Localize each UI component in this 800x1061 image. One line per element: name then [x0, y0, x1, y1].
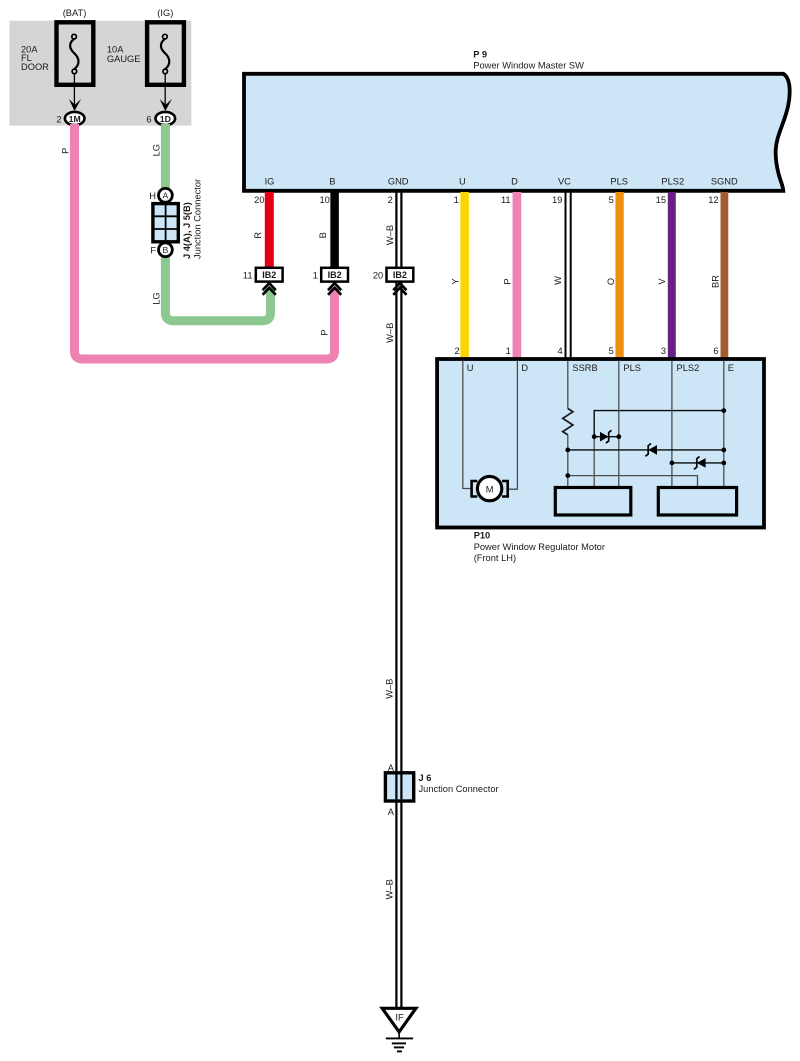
wire LG (green) 1D to junction — [161, 124, 170, 189]
connector IB2 pin 1 — [313, 268, 348, 282]
junction connector circle B — [150, 243, 172, 257]
svg-text:H: H — [149, 191, 156, 201]
svg-text:J 6: J 6 — [419, 773, 432, 783]
chevron below IB2 pin 11 — [263, 283, 276, 295]
junction connector J6 — [385, 773, 413, 801]
internal wire PLS2 — [671, 361, 673, 488]
internal wire D — [509, 361, 518, 489]
svg-text:W–B: W–B — [385, 225, 395, 245]
svg-text:10: 10 — [319, 195, 329, 205]
internal wire E — [723, 361, 725, 488]
wire Y (yellow) U to P10 — [460, 192, 469, 358]
svg-text:IB2: IB2 — [393, 270, 407, 280]
wire V (violet) PLS2 to P10 — [668, 192, 676, 358]
svg-text:1: 1 — [454, 195, 459, 205]
svg-text:GND: GND — [388, 177, 409, 187]
svg-text:A: A — [388, 763, 395, 773]
svg-text:V: V — [657, 278, 667, 285]
svg-text:(BAT): (BAT) — [63, 8, 87, 18]
fuse 10A GAUGE (IG) — [147, 22, 184, 85]
svg-text:15: 15 — [656, 195, 666, 205]
svg-text:3: 3 — [661, 346, 666, 356]
internal wire diode row 2 — [568, 449, 724, 451]
diode D1 (zener) — [600, 430, 612, 443]
limit switch box 1 — [555, 488, 631, 516]
internal wire U — [463, 361, 472, 489]
svg-text:W–B: W–B — [385, 879, 395, 899]
diode D3 (zener) — [694, 457, 706, 470]
svg-text:SSRB: SSRB — [572, 363, 597, 373]
svg-text:DOOR: DOOR — [21, 62, 49, 72]
internal wire mid vertical (upper, black) — [594, 411, 724, 437]
svg-text:A: A — [388, 807, 395, 817]
svg-text:5: 5 — [609, 195, 614, 205]
svg-text:P 9: P 9 — [473, 49, 487, 59]
svg-text:R: R — [253, 232, 263, 239]
svg-text:O: O — [606, 278, 616, 285]
connector 1D pin 6 — [146, 112, 175, 125]
diode D2 (zener) — [645, 444, 657, 457]
ground IF — [382, 1008, 416, 1051]
svg-text:19: 19 — [552, 195, 562, 205]
motor box P10 — [437, 359, 764, 528]
limit switch box 2 — [658, 488, 736, 516]
svg-text:LG: LG — [152, 292, 162, 304]
svg-text:11: 11 — [243, 270, 253, 280]
ECU box P9 Power Window Master SW — [244, 74, 790, 191]
svg-text:A: A — [163, 191, 169, 201]
wire fuse1 to 1M with arrowhead — [69, 74, 81, 111]
internal wire SSRB lower — [567, 435, 569, 487]
svg-text:2: 2 — [56, 114, 61, 124]
connector 1M pin 2 — [56, 112, 84, 125]
GROUP: P9 — [244, 49, 790, 191]
svg-text:PLS: PLS — [610, 177, 628, 187]
internal wire SSRB — [567, 361, 569, 409]
svg-text:Power Window Regulator Motor: Power Window Regulator Motor — [474, 542, 605, 552]
svg-text:20: 20 — [254, 195, 264, 205]
connector IB2 pin 20 — [373, 268, 413, 282]
svg-text:PLS2: PLS2 — [661, 177, 684, 187]
svg-text:11: 11 — [501, 195, 511, 205]
svg-text:1: 1 — [313, 270, 318, 280]
svg-text:D: D — [521, 363, 528, 373]
svg-text:BR: BR — [711, 275, 721, 288]
svg-text:Junction Connector: Junction Connector — [419, 784, 499, 794]
GROUP: power wires — [60, 124, 334, 359]
GROUP: fuse block — [9, 8, 191, 125]
junction connector J4(A) J5(B) circle A — [149, 188, 172, 202]
svg-text:2: 2 — [388, 195, 393, 205]
svg-text:W–B: W–B — [385, 323, 395, 343]
svg-text:Power Window Master SW: Power Window Master SW — [473, 61, 584, 71]
svg-text:12: 12 — [708, 195, 718, 205]
svg-text:4: 4 — [558, 346, 563, 356]
GROUP: lower WB run — [382, 679, 498, 1052]
svg-text:W–B: W–B — [385, 679, 395, 699]
svg-text:PLS2: PLS2 — [677, 363, 700, 373]
wire P (pink) 1M to IB2 — [75, 124, 335, 359]
resistor (pulse sensor) — [563, 409, 573, 435]
svg-text:B: B — [163, 245, 169, 255]
svg-text:10A: 10A — [107, 45, 124, 55]
svg-text:W: W — [553, 276, 563, 285]
svg-text:5: 5 — [609, 346, 614, 356]
chevron below IB2 pin 20 — [393, 283, 406, 295]
svg-text:SGND: SGND — [711, 177, 738, 187]
svg-text:IB2: IB2 — [262, 270, 276, 280]
wire BR (brown) SGND to P10 — [721, 192, 729, 358]
svg-text:B: B — [318, 232, 328, 238]
GROUP: P10 — [437, 346, 764, 563]
motor M — [472, 476, 508, 500]
svg-text:GAUGE: GAUGE — [107, 54, 141, 64]
svg-text:IG: IG — [265, 177, 275, 187]
svg-text:6: 6 — [713, 346, 718, 356]
svg-text:P10: P10 — [474, 531, 491, 541]
chevron below IB2 pin 1 — [328, 283, 341, 295]
svg-text:Y: Y — [451, 278, 461, 284]
svg-text:(IG): (IG) — [157, 8, 173, 18]
svg-text:IF: IF — [395, 1012, 404, 1022]
wire R (red) IG to IB2 — [265, 192, 274, 269]
GROUP: IB2 connectors — [243, 268, 413, 295]
svg-text:PLS: PLS — [623, 363, 641, 373]
wire LG (green) junction to IB2 — [165, 256, 270, 321]
svg-text:Junction Connector: Junction Connector — [192, 179, 202, 259]
fuse 20A FL DOOR (BAT) — [57, 22, 94, 85]
svg-text:IB2: IB2 — [328, 270, 342, 280]
svg-text:(Front LH): (Front LH) — [474, 553, 516, 563]
svg-text:E: E — [728, 363, 734, 373]
svg-text:F: F — [150, 246, 156, 256]
wire fuse2 to 1D with arrowhead — [160, 74, 172, 111]
svg-text:VC: VC — [558, 177, 571, 187]
svg-text:U: U — [459, 177, 466, 187]
svg-text:J 4(A), J 5(B): J 4(A), J 5(B) — [182, 202, 192, 259]
wire P (pink) D to P10 — [513, 192, 522, 358]
svg-text:P: P — [502, 278, 512, 284]
svg-text:1M: 1M — [69, 114, 81, 124]
internal wire SSRB to box2 — [568, 476, 698, 488]
svg-text:M: M — [486, 484, 494, 494]
wire W-B (double line) GND to ground — [396, 192, 401, 1009]
svg-text:1D: 1D — [160, 114, 171, 124]
fuse block (gray) — [9, 21, 191, 126]
svg-text:B: B — [329, 177, 335, 187]
svg-text:2: 2 — [455, 346, 460, 356]
svg-text:P: P — [320, 329, 330, 335]
svg-text:LG: LG — [152, 144, 162, 156]
svg-text:U: U — [467, 363, 474, 373]
internal wire diode row 3 — [672, 462, 724, 464]
junction connector J4/J5 grid — [153, 204, 178, 242]
junction dots — [565, 408, 726, 478]
connector IB2 pin 11 — [243, 268, 283, 282]
internal wire PLS — [618, 361, 620, 488]
wire B (black) B to IB2 — [330, 192, 339, 269]
internal wire diode row 1 — [594, 436, 619, 438]
wire W (white, outline) VC to P10 — [566, 192, 571, 358]
svg-text:6: 6 — [146, 114, 151, 124]
svg-text:1: 1 — [506, 346, 511, 356]
svg-text:20: 20 — [373, 270, 383, 280]
wire O (orange) PLS to P10 — [615, 192, 623, 358]
GROUP: wires below P9 — [253, 192, 724, 1009]
svg-text:D: D — [511, 177, 518, 187]
internal wire mid vertical (lower, gray) — [593, 437, 595, 488]
svg-text:P: P — [60, 148, 70, 154]
